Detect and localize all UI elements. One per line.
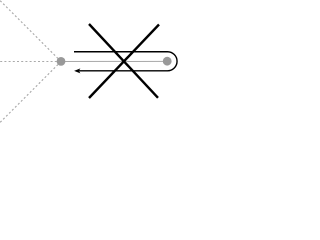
cross line 2 [89,25,159,99]
gray worldline [61,60,167,62]
dotted ray left [0,61,61,63]
hairpin loop [74,52,177,71]
dotted ray upper-left [0,1,61,62]
dotted ray lower-left [0,62,61,123]
node dot right [163,57,172,66]
node dot left [57,57,66,66]
arrowhead [74,68,80,73]
cross line 1 [89,24,158,98]
